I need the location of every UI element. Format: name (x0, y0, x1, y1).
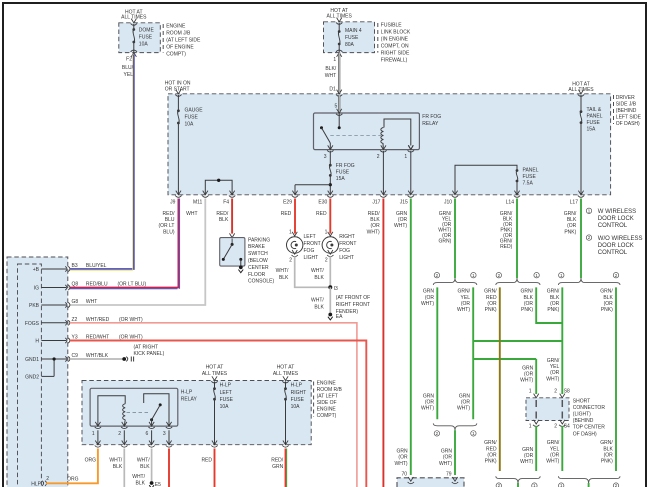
wire riser into short connector pin 1 (535, 359, 537, 394)
svg-text:1: 1 (404, 154, 407, 160)
wire gauge fuse vertical (177, 95, 179, 111)
relay coil and loop to pin 1 (384, 119, 411, 146)
brace split under L14 (496, 278, 540, 285)
engine room R/B box (dashed, blue fill) (82, 381, 311, 445)
svg-text:5: 5 (335, 104, 338, 110)
svg-text:1: 1 (289, 230, 292, 236)
footnote 2 without wireless door lock control (586, 235, 591, 240)
svg-text:HOT AT: HOT AT (277, 365, 295, 371)
ground E5 (150, 481, 154, 485)
brace merge bottom GRN/YEL + GRN/BLK (558, 476, 620, 483)
pin J17 at J/B bottom edge (381, 191, 386, 195)
svg-text:WHT/RED: WHT/RED (86, 317, 110, 323)
wire L14 GRN/BLK down to split brace (516, 199, 518, 279)
parking brake switch contacts and arm (231, 243, 234, 246)
svg-text:J15: J15 (400, 200, 408, 206)
svg-text:2: 2 (289, 258, 292, 264)
pin at dome fuse box top (131, 19, 136, 23)
wire E30 RED down to right fog light (329, 199, 331, 234)
wire GRN/BLK branch (1) of L14 down then right (536, 287, 562, 323)
svg-text:ALL TIMES: ALL TIMES (202, 371, 228, 377)
svg-text:L17: L17 (570, 200, 579, 206)
svg-text:BLK/: BLK/ (325, 66, 336, 72)
svg-text:GRN/YEL(ORWHT)(ORGRN): GRN/YEL(ORWHT)(ORGRN) (438, 211, 452, 245)
svg-text:RED: RED (316, 211, 327, 217)
H-LP relay fixed contact from pin3 (144, 394, 169, 426)
pin J9 at J/B bottom edge (176, 191, 181, 195)
svg-text:2: 2 (118, 431, 121, 437)
svg-text:L14: L14 (506, 200, 515, 206)
wire J15 GRN down to pin 70 (410, 199, 412, 476)
svg-text:J10: J10 (444, 200, 452, 206)
svg-text:HLP: HLP (31, 482, 41, 487)
svg-text:RELAY: RELAY (181, 397, 198, 403)
wire L17 GRN/BLK down to split brace (580, 199, 582, 279)
svg-text:EA: EA (336, 314, 343, 320)
svg-text:GND2: GND2 (25, 374, 39, 380)
svg-text:70: 70 (401, 472, 407, 478)
pin J10 at J/B bottom edge (452, 191, 457, 195)
module GND1-GND2 jumper (53, 359, 55, 376)
wire jumper to E29 (295, 184, 330, 186)
fuse MAIN 4 FUSE 80A (338, 30, 341, 33)
fuse H-LP RIGHT FUSE 10A (285, 382, 287, 389)
svg-text:WHT: WHT (86, 299, 97, 305)
wire RED from H-LP left fuse down (214, 449, 216, 487)
wire panel fuse feed from L14 riser (455, 165, 517, 195)
brace split under L17 (558, 278, 620, 285)
relay FR FOG RELAY box (314, 113, 420, 150)
wire D1 to relay pin 5 (338, 95, 340, 113)
svg-text:RED: RED (281, 211, 292, 217)
pin L14 at J/B bottom edge (514, 191, 519, 195)
control module outer box (dashed, blue fill) (7, 257, 68, 487)
pin F2 at dome box bottom (131, 53, 136, 57)
svg-text:BLK: BLK (314, 275, 324, 281)
control module inner box (dashed) (18, 264, 42, 487)
svg-text:WHT/BLK: WHT/BLK (86, 353, 109, 359)
svg-text:GRN: GRN (272, 464, 284, 470)
svg-text:GRN/BLK(ORPNK)(ORGRN/RED): GRN/BLK(ORPNK)(ORGRN/RED) (500, 211, 513, 250)
wire GRN/BLK branch (1) of L17 down to short connector S8 (561, 287, 563, 394)
wire short connector pin1 down to bottom merge brace (535, 426, 537, 471)
svg-text:BLK: BLK (136, 480, 146, 486)
wire F4 RED/BLK down to parking brake switch (231, 199, 233, 234)
relay H-LP RELAY box (90, 388, 178, 426)
svg-text:ALL TIMES: ALL TIMES (568, 87, 594, 93)
svg-text:E29: E29 (283, 200, 292, 206)
wire RED from relay pin3 down (168, 449, 170, 487)
wire fuse to E30 with junction (329, 175, 331, 194)
svg-text:RED/BLK: RED/BLK (216, 211, 229, 223)
wire jumper y341 to S8 riser (473, 340, 562, 342)
wire relay pin2 down to J17 (382, 151, 384, 195)
wire tail-panel fuse vertical (580, 95, 582, 112)
pin at J/B top for tail-panel fuse (578, 90, 583, 94)
main4 fuse wire inside box (338, 23, 340, 32)
svg-text:C9: C9 (72, 353, 79, 359)
svg-text:2: 2 (554, 424, 557, 430)
wire M11-F4 jumper with junction dot (205, 180, 232, 195)
label bracket driver side J/B (613, 95, 615, 124)
brace split under J10 (433, 278, 477, 285)
brace merge above pin 79 (433, 423, 477, 430)
wire GRN/RED branch (2) olive straight down (499, 287, 501, 471)
svg-text:ALL TIMES: ALL TIMES (327, 14, 353, 20)
svg-text:BLU/: BLU/ (122, 65, 134, 71)
relay actuating dashed link (330, 134, 381, 136)
svg-text:2: 2 (377, 154, 380, 160)
svg-text:S4: S4 (564, 424, 570, 430)
svg-text:1: 1 (325, 230, 328, 236)
wire WHT/BLK down to ground EA (329, 287, 331, 312)
footnote 1 with wireless door lock control (586, 208, 591, 213)
svg-text:ORG: ORG (85, 457, 97, 463)
svg-text:F2: F2 (126, 57, 132, 63)
fuse TAIL & PANEL FUSE 15A (580, 110, 583, 113)
svg-text:IG: IG (34, 286, 39, 292)
svg-text:KICK PANEL): KICK PANEL) (134, 351, 165, 357)
relay bottom pins 3,2,1 (328, 145, 333, 149)
pin E30 at J/B bottom edge (328, 191, 333, 195)
wire RED/GRN from H-LP right fuse down (285, 449, 287, 487)
wire jumper y359 to short connector pin1 riser (473, 358, 536, 360)
pin 1 at main4 box bottom (337, 53, 342, 57)
svg-text:ORG: ORG (67, 477, 79, 483)
svg-text:1: 1 (92, 431, 95, 437)
pin F4 at J/B bottom edge (230, 191, 235, 195)
svg-text:3: 3 (324, 154, 327, 160)
svg-text:RELAY: RELAY (422, 121, 439, 127)
wire relay pin3 to FR FOG fuse (329, 151, 331, 165)
svg-text:BLK: BLK (113, 464, 123, 470)
svg-text:WHT: WHT (186, 211, 197, 217)
svg-text:WHT: WHT (325, 73, 336, 79)
wire E29 RED down to left fog light (294, 199, 296, 234)
svg-text:Q8: Q8 (72, 282, 79, 288)
wire short connector S4 down to bottom merge brace (561, 426, 563, 471)
svg-text:ALL TIMES: ALL TIMES (121, 15, 147, 21)
svg-text:3: 3 (163, 431, 166, 437)
pin L17 at J/B bottom edge (578, 191, 583, 195)
svg-text:1: 1 (333, 57, 336, 63)
svg-text:M11: M11 (193, 200, 203, 206)
label bracket engine room R/B (313, 382, 315, 418)
svg-text:F4: F4 (223, 200, 229, 206)
svg-text:(OR WHT): (OR WHT) (119, 317, 143, 323)
driver side J/B box (dashed, blue fill) (168, 94, 611, 195)
fuse GAUGE FUSE 10A (177, 109, 180, 112)
svg-text:D1: D1 (329, 87, 336, 93)
wire J17 RED/BLK down to bottom of page (382, 199, 384, 487)
wire GRN branch (2) straight down to merge brace (436, 287, 438, 419)
label bracket fusible link block (377, 23, 379, 53)
svg-text:BLK: BLK (314, 305, 324, 311)
wire J10 GRN/YEL down to split brace (454, 199, 456, 279)
svg-text:1: 1 (529, 424, 532, 430)
wire F4 chevron into parking brake switch (230, 233, 235, 237)
svg-text:RED/BLU: RED/BLU (86, 282, 108, 288)
junction node I3 (328, 285, 332, 289)
svg-text:WHT/: WHT/ (132, 474, 145, 480)
pin E29 at J/B bottom edge (292, 191, 297, 195)
svg-text:J17: J17 (372, 200, 380, 206)
svg-text:2: 2 (325, 258, 328, 264)
svg-text:(OR LT BLU): (OR LT BLU) (118, 282, 147, 288)
wire relay pin1 down to J15 (410, 151, 412, 195)
wire GRN/YEL branch (1) down with T junctions (472, 287, 474, 419)
junction dot to E29 jumper (329, 183, 332, 186)
svg-text:(AT RIGHT: (AT RIGHT (134, 344, 159, 350)
svg-text:I3: I3 (334, 286, 338, 292)
pin M11 at J/B bottom edge (203, 191, 208, 195)
fuse FR FOG FUSE 15A (329, 164, 332, 167)
brace merge bottom GRN/RED + GRN (496, 476, 540, 483)
pin J15 at J/B bottom edge (408, 191, 413, 195)
pin at J/B top for gauge fuse (176, 90, 181, 94)
svg-text:79: 79 (446, 472, 452, 478)
H-LP relay switch arm (150, 418, 153, 421)
wire M11 WHT down and left to module PKB (G8) (70, 199, 205, 306)
H-LP relay dashed link (127, 412, 151, 414)
ground EA at front of right front fender (328, 313, 332, 317)
svg-text:FUSIBLELINK BLOCK(IN ENGINECOM: FUSIBLELINK BLOCK(IN ENGINECOMPT, ONRIGH… (381, 22, 411, 63)
svg-text:6: 6 (146, 431, 149, 437)
svg-text:HOT AT: HOT AT (206, 365, 224, 371)
svg-text:WHT/: WHT/ (311, 268, 324, 274)
svg-text:H-LP: H-LP (181, 390, 193, 396)
svg-text:2: 2 (46, 476, 49, 482)
svg-text:RED: RED (201, 457, 212, 463)
svg-text:E5: E5 (155, 482, 161, 487)
fuse H-LP LEFT FUSE 10A (214, 382, 216, 389)
ground below parking brake switch (239, 265, 243, 269)
H-LP relay coil loop pin1 to pin2 (98, 396, 125, 426)
dome fuse wire inside box (133, 24, 135, 30)
wire ORG from relay pin1 to module HLP (46, 449, 98, 484)
fuse PANEL FUSE 7.5A (516, 169, 519, 172)
svg-text:WHT/: WHT/ (137, 457, 150, 463)
pins at engine room R/B bottom edge (95, 441, 100, 445)
svg-text:RED/: RED/ (271, 457, 284, 463)
svg-text:J9: J9 (170, 200, 176, 206)
ground II at right kick panel (122, 357, 126, 361)
svg-text:H: H (35, 339, 39, 345)
wire BLK/WHT from main4 fuse to D1 (338, 53, 340, 94)
svg-text:E30: E30 (318, 200, 327, 206)
svg-text:BLK: BLK (279, 275, 289, 281)
wire WHT/BLK from relay pin6 to ground E5 (151, 449, 153, 482)
fusible link block box (324, 22, 375, 53)
svg-text:FOGS: FOGS (25, 321, 40, 327)
svg-text:WHT/: WHT/ (276, 268, 289, 274)
svg-text:WHT/: WHT/ (109, 457, 122, 463)
svg-text:GND1: GND1 (25, 357, 39, 363)
svg-text:FR FOG: FR FOG (422, 114, 441, 120)
svg-text:2: 2 (554, 389, 557, 395)
svg-text:YEL: YEL (124, 72, 134, 78)
svg-text:Z2: Z2 (72, 317, 78, 323)
engine room J/B dome fuse box (119, 23, 161, 53)
relay switch contact and arm (320, 126, 323, 129)
wire merged GRN down to pin 79 (454, 430, 456, 475)
switch PARKING BRAKE SWITCH box (220, 238, 245, 267)
svg-text:+B: +B (33, 267, 40, 273)
svg-text:WHT/: WHT/ (311, 298, 324, 304)
fuse DOME FUSE 10A (132, 28, 135, 31)
wire WHT/BLK from relay pin2 down (123, 449, 125, 487)
svg-text:ALL TIMES: ALL TIMES (273, 371, 299, 377)
wire WHT/BLK from right fog light to junction I3 (329, 257, 331, 288)
wires from H-LP relay pins to R/B bottom edge (97, 430, 99, 444)
pin at main4 fuse box top (337, 18, 342, 22)
label bracket engine room J/B (162, 24, 164, 53)
relay pin1 arrow into bottom edge (409, 145, 414, 149)
pin D1 at J/B box top (337, 90, 342, 94)
svg-text:1: 1 (529, 389, 532, 395)
svg-text:G8: G8 (72, 299, 79, 305)
wire GRN/BLK branch (2) of L17 straight down (615, 287, 617, 471)
wire J9 RED/BLU down and left to module IG (Q8) (70, 199, 178, 288)
svg-text:BLK: BLK (140, 464, 150, 470)
relay pin5 stub and contact dot (337, 109, 342, 113)
wire WHT/BLK from left fog light to junction I3 (295, 257, 331, 288)
H-LP relay bottom pins 1 2 6 3 (95, 422, 100, 426)
svg-text:PKB: PKB (29, 303, 40, 309)
